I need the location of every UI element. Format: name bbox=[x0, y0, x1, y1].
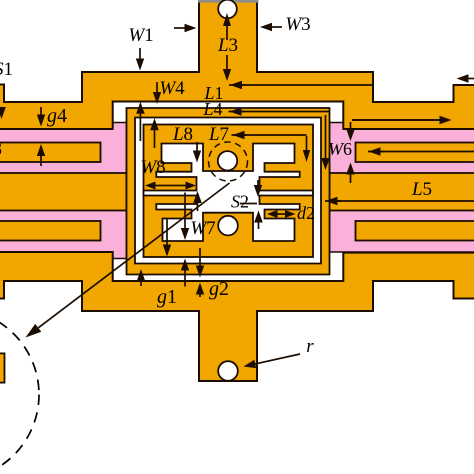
svg-text:W1: W1 bbox=[128, 25, 153, 46]
svg-text:g2: g2 bbox=[209, 278, 229, 300]
svg-text:W8: W8 bbox=[140, 157, 165, 178]
svg-text:L4: L4 bbox=[202, 99, 222, 119]
svg-text:g1: g1 bbox=[157, 286, 177, 308]
svg-text:d2: d2 bbox=[297, 203, 315, 223]
svg-text:r: r bbox=[306, 336, 314, 357]
svg-text:W6: W6 bbox=[328, 139, 352, 159]
svg-text:L7: L7 bbox=[208, 124, 229, 145]
svg-text:W7: W7 bbox=[190, 218, 215, 239]
svg-text:L8: L8 bbox=[172, 124, 193, 145]
svg-text:S2: S2 bbox=[231, 192, 249, 212]
svg-text:L5: L5 bbox=[411, 179, 432, 200]
svg-text:W3: W3 bbox=[285, 14, 310, 35]
svg-text:8: 8 bbox=[0, 138, 2, 160]
svg-text:L3: L3 bbox=[217, 35, 238, 56]
svg-text:g4: g4 bbox=[47, 105, 67, 127]
svg-text:W4: W4 bbox=[159, 78, 185, 99]
svg-text:S1: S1 bbox=[0, 59, 13, 80]
